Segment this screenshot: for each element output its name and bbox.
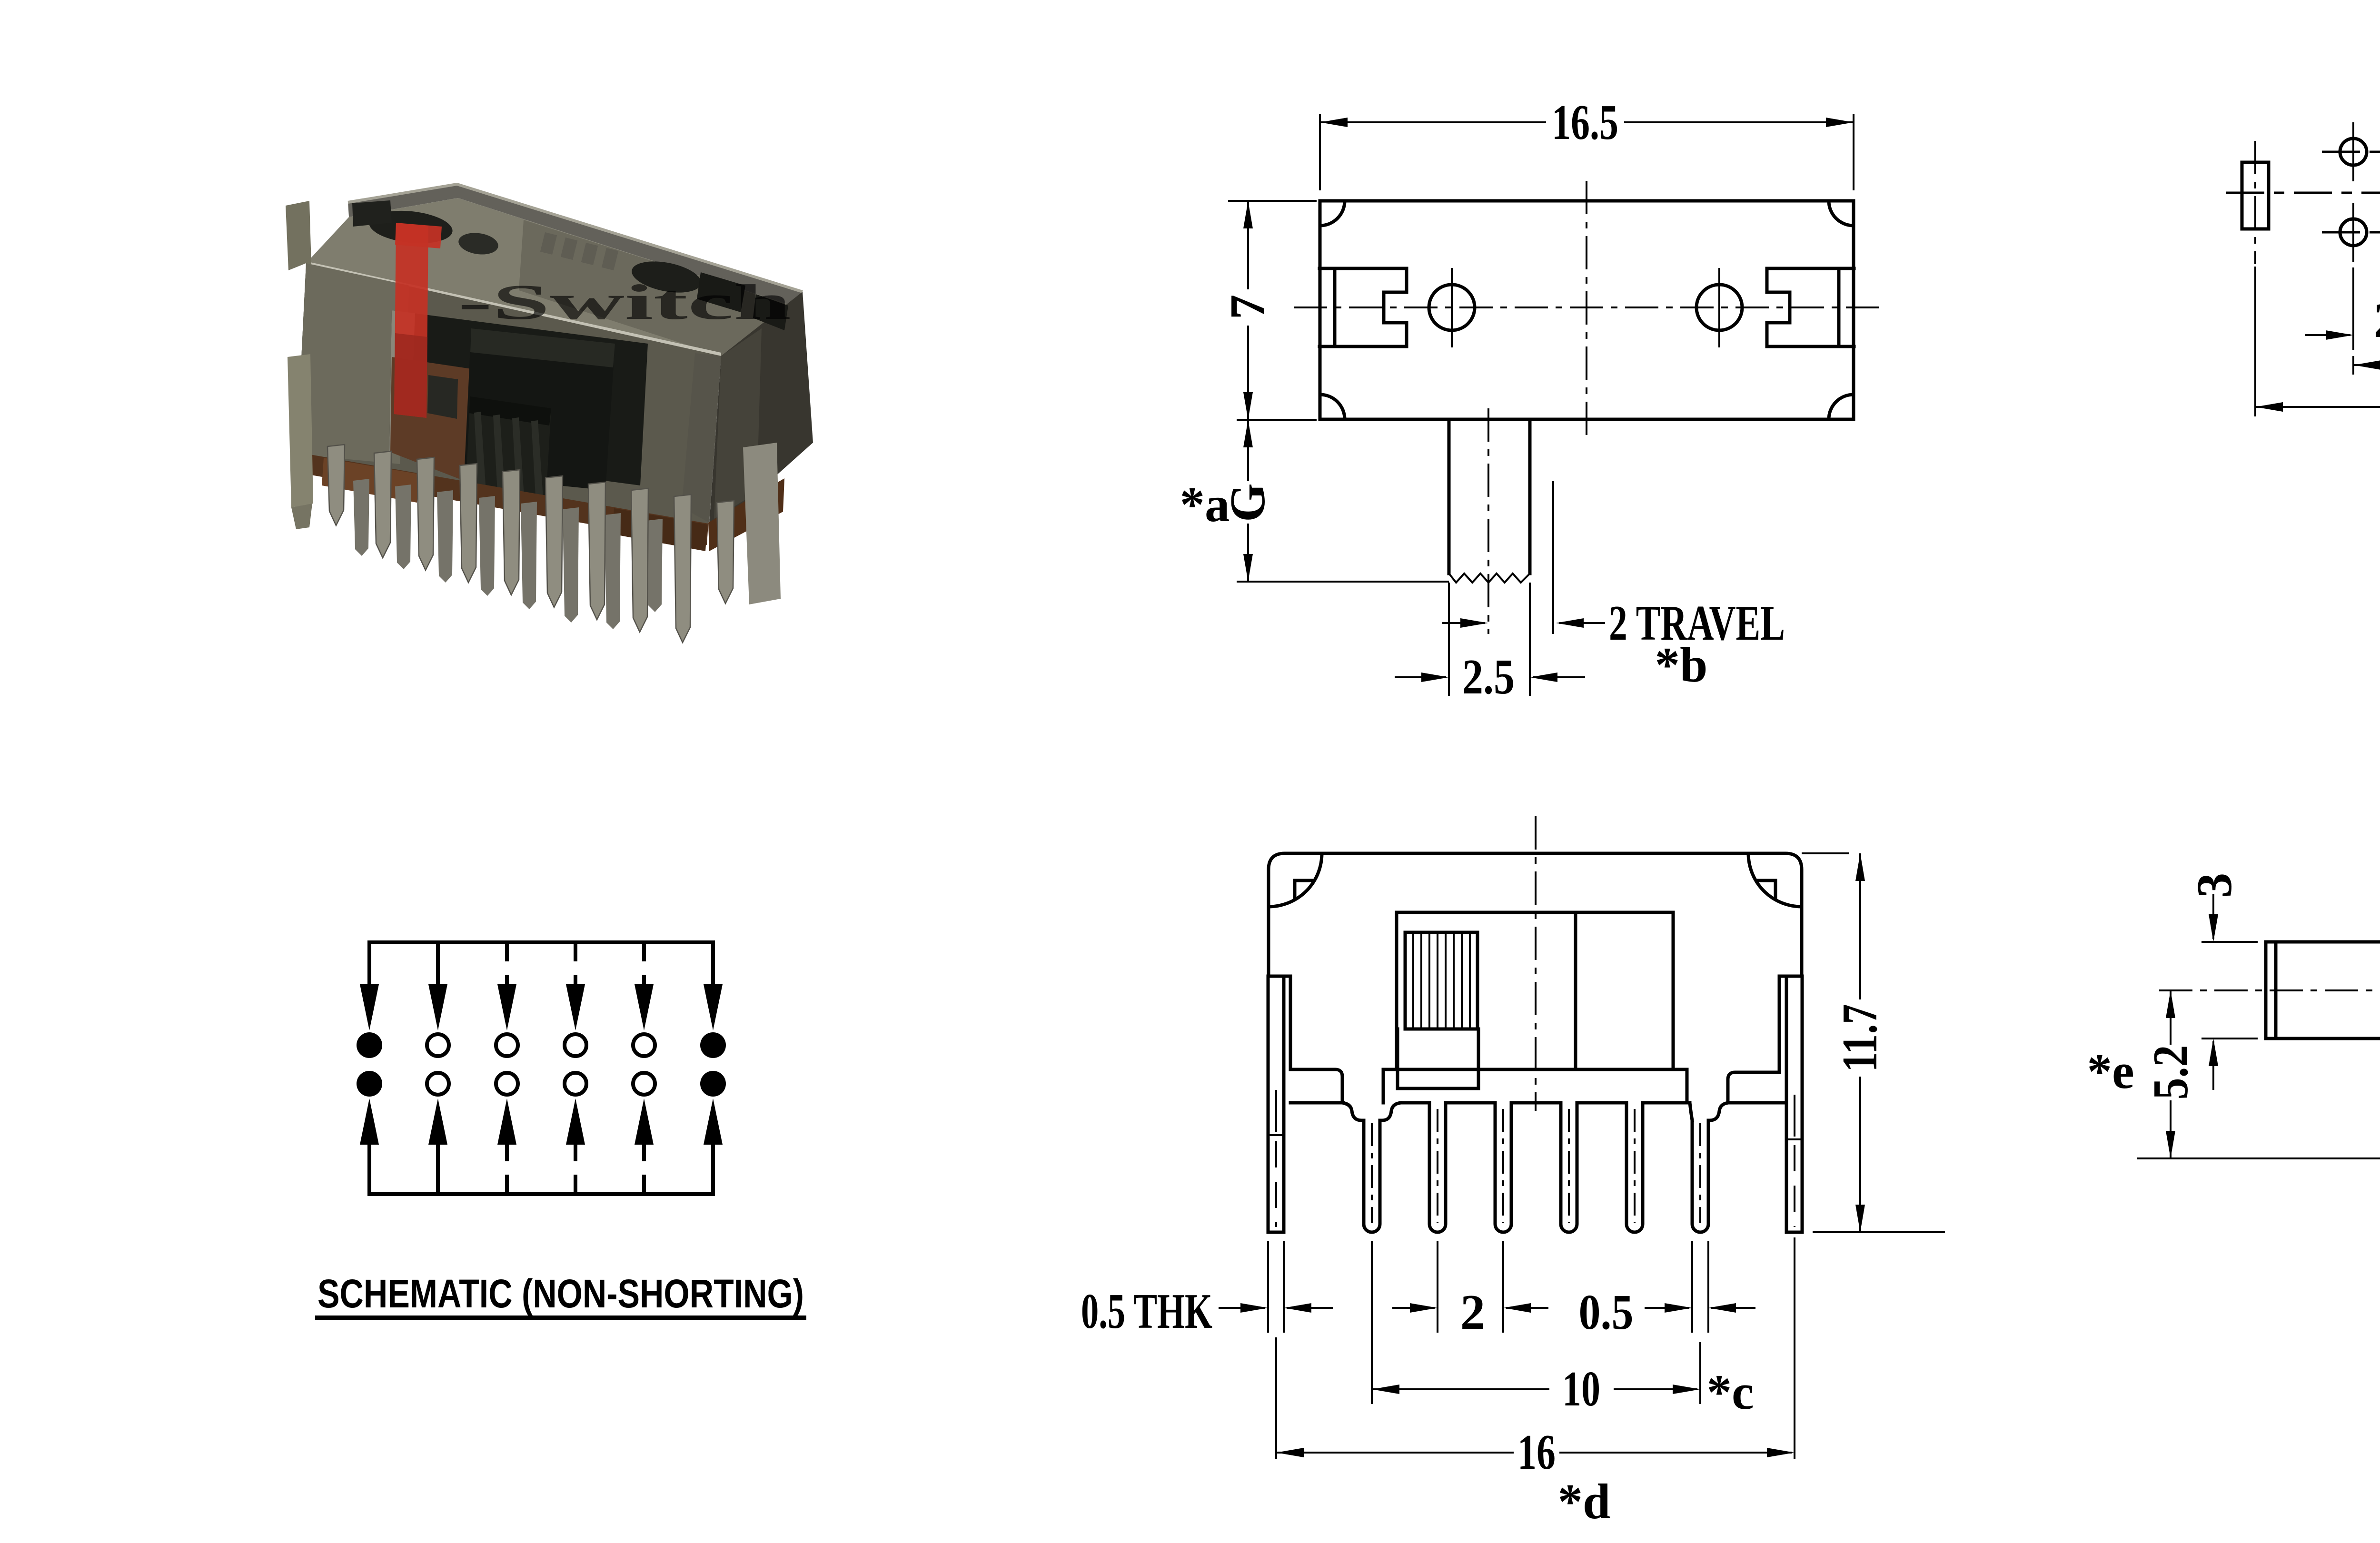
shaft centerline xyxy=(2159,989,2380,991)
pole 3 top wire (dashed) xyxy=(505,942,509,986)
pin 5 xyxy=(1626,1103,1643,1232)
pin 1 xyxy=(1364,1120,1380,1232)
pole 2 bottom wire xyxy=(436,1142,440,1194)
switch photo: back row pins xyxy=(353,479,663,629)
base plate strip xyxy=(1383,1069,1687,1103)
PHOTO xyxy=(286,184,813,643)
left rivet hole xyxy=(1429,268,1475,347)
dimension 11.7 xyxy=(1802,853,1945,1232)
right anchor tab (E-shape) xyxy=(1767,268,1854,346)
svg-text:0.5 THK: 0.5 THK xyxy=(1081,1283,1212,1339)
dimension 2 pin pitch xyxy=(2305,267,2380,350)
dimension 3 xyxy=(2186,873,2258,1090)
svg-text:2.5: 2.5 xyxy=(1462,649,1515,704)
dimension 10 xyxy=(2353,267,2380,392)
svg-text:*d: *d xyxy=(1558,1474,1611,1529)
svg-text:5.2: 5.2 xyxy=(2142,1045,2198,1100)
slider stem (broken) xyxy=(1449,419,1530,583)
label *c xyxy=(1706,1364,1754,1420)
pole 2 top wire xyxy=(436,942,440,986)
body centerline xyxy=(1535,816,1537,1111)
svg-text:16: 16 xyxy=(1517,1424,1556,1480)
label *e xyxy=(2087,1043,2134,1099)
corner relief arc top-right xyxy=(1829,201,1854,226)
svg-text:*a: *a xyxy=(1180,476,1230,532)
dimension 16 xyxy=(1276,1237,1795,1480)
svg-text:3: 3 xyxy=(2186,873,2242,898)
pin 6 collar notch xyxy=(1690,1103,1728,1120)
switch photo: top face of cover xyxy=(306,198,801,359)
svg-text:SCHEMATIC (NON-SHORTING): SCHEMATIC (NON-SHORTING) xyxy=(317,1271,804,1316)
pin 4 xyxy=(1561,1103,1577,1232)
svg-text:10: 10 xyxy=(1562,1361,1600,1416)
left bracket xyxy=(1269,976,1342,1103)
row 2 centerline xyxy=(2322,231,2380,234)
corner relief arc bottom-left xyxy=(1320,395,1345,419)
pole 1 top wire xyxy=(367,942,371,986)
left side plate xyxy=(1268,976,1284,1232)
switch photo: brand watermark xyxy=(394,223,791,418)
right rivet hole xyxy=(1696,268,1742,347)
switch photo: back flange xyxy=(348,184,803,308)
svg-text:*e: *e xyxy=(2087,1043,2134,1099)
switch photo: window recess xyxy=(389,310,648,485)
pin 6 xyxy=(1692,1120,1708,1232)
label *d xyxy=(1558,1474,1611,1529)
dimension 0.5 pin xyxy=(1579,1241,1756,1340)
switch photo: lid hole left xyxy=(352,200,500,257)
middle horizontal centerline xyxy=(2226,192,2380,194)
switch photo: right tab xyxy=(743,443,781,604)
dimension 16.5 xyxy=(1320,94,1854,190)
switch photo: front face xyxy=(297,263,721,524)
dimension 2.5 (stem) xyxy=(1395,649,1585,704)
pad holes row 2 xyxy=(2340,203,2380,262)
pin 1 collar notch xyxy=(1342,1103,1401,1120)
label *a xyxy=(1180,476,1230,532)
knob base xyxy=(1398,1029,1478,1088)
left anchor tab (E-shape) xyxy=(1319,268,1407,346)
common bus top xyxy=(369,940,713,944)
pole 4 bottom wire (dashed) xyxy=(574,1142,577,1194)
base bottom edge xyxy=(1290,1101,1786,1105)
travel reference line xyxy=(1552,481,1554,634)
FRONTVIEW xyxy=(1081,816,1945,1529)
switch body outline (top view) xyxy=(1320,201,1854,419)
knob shaft (side) xyxy=(2266,942,2380,1039)
svg-text:2: 2 xyxy=(1460,1284,1486,1340)
switch photo: right end cap xyxy=(709,292,813,524)
horizontal centerline xyxy=(1294,307,1880,308)
switch photo: knob xyxy=(464,328,615,505)
switch photo: left tab xyxy=(288,354,313,529)
stem edge extension lines xyxy=(1449,583,1530,696)
row 1 contacts xyxy=(357,1032,726,1058)
knob grip hatched xyxy=(1405,932,1478,1029)
stem centerline xyxy=(1487,408,1489,634)
svg-text:16.5: 16.5 xyxy=(1552,94,1618,150)
corner relief arc top-right with step xyxy=(1748,853,1802,907)
dimension 2 pin pitch xyxy=(1392,1241,1548,1340)
dimension 0.5 THK arrows xyxy=(1219,1241,1333,1333)
top arrowheads xyxy=(360,984,723,1030)
svg-text:*c: *c xyxy=(1706,1364,1754,1420)
schematic title xyxy=(315,1271,806,1320)
pin 3 xyxy=(1495,1103,1511,1232)
dimension 16 xyxy=(2255,267,2380,434)
right bracket xyxy=(1728,976,1802,1103)
body outline (front view) xyxy=(1269,853,1802,976)
switch photo: lid marking xyxy=(540,232,618,270)
pole 1 bottom wire xyxy=(367,1142,371,1194)
pole 6 top wire xyxy=(711,942,715,986)
TOPVIEW xyxy=(1180,94,1881,704)
travel pointer arrows xyxy=(1442,618,1605,628)
dimension 7 xyxy=(1220,201,1317,420)
switch photo: front row pins xyxy=(327,445,734,643)
row 2 contacts xyxy=(357,1071,726,1097)
switch photo: lid hole right xyxy=(629,256,788,330)
svg-text:11.7: 11.7 xyxy=(1832,1004,1887,1072)
pole 5 bottom wire (dashed) xyxy=(642,1142,646,1194)
SIDEVIEW xyxy=(2087,837,2380,1443)
corner relief arc bottom-right xyxy=(1829,395,1854,419)
SCHEMATIC xyxy=(315,942,806,1320)
window divider xyxy=(1574,912,1577,1069)
switch photo: brown base strip xyxy=(295,452,784,551)
corner relief arc top-left with step xyxy=(1269,853,1322,907)
vertical centerline xyxy=(1586,181,1587,435)
corner relief arc top-left xyxy=(1320,201,1345,226)
pole 5 top wire (dashed) xyxy=(642,942,646,986)
frame window xyxy=(1397,912,1673,1069)
pole 4 top wire (dashed) xyxy=(574,942,577,986)
label 0.5 THK xyxy=(1081,1283,1212,1339)
bottom arrowheads xyxy=(360,1098,723,1145)
svg-text:7: 7 xyxy=(1220,295,1275,320)
svg-text:*b: *b xyxy=(1655,637,1708,692)
label 2 TRAVEL xyxy=(1609,595,1785,651)
pole 6 bottom wire xyxy=(711,1142,715,1194)
svg-text:2: 2 xyxy=(2374,292,2380,348)
pad holes row 1 xyxy=(2340,122,2380,181)
dimension G xyxy=(1220,420,1449,582)
dimension 5.2 xyxy=(2137,990,2380,1158)
row 1 centerline xyxy=(2322,151,2380,153)
PCBVIEW xyxy=(2226,107,2380,582)
label *b xyxy=(1655,637,1708,692)
svg-text:-Switch: -Switch xyxy=(458,274,791,330)
right side plate xyxy=(1786,976,1802,1232)
pole 3 bottom wire (dashed) xyxy=(505,1142,509,1194)
common bus bottom xyxy=(369,1192,713,1196)
dimension 10 xyxy=(1372,1241,1700,1416)
pin 2 xyxy=(1429,1103,1446,1232)
left slot pad xyxy=(2242,141,2269,264)
svg-text:0.5: 0.5 xyxy=(1579,1284,1634,1340)
switch photo: left small wing xyxy=(286,201,311,270)
